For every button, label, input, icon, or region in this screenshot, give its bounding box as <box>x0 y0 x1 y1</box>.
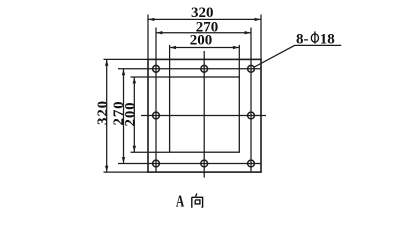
hole top-left <box>153 65 160 72</box>
dimension line 200 horizontal <box>170 47 240 49</box>
centerline middle row <box>141 115 266 117</box>
hole top-right <box>248 65 255 72</box>
dimension line 200 vertical <box>133 77 135 152</box>
dimension line 270 horizontal <box>156 32 251 34</box>
svg-text:200: 200 <box>123 102 139 127</box>
hole bottom-middle <box>201 160 208 167</box>
arrowhead 200v top <box>133 77 136 83</box>
hole middle-left <box>153 112 160 119</box>
svg-text:8-: 8- <box>296 31 309 47</box>
svg-text:200: 200 <box>190 32 213 48</box>
plate outline (320x320 square flange) <box>148 59 261 172</box>
extension line plate right (top dim 320) <box>260 15 262 60</box>
extension line inner-top (left dim 200) <box>131 76 170 78</box>
hole top-middle <box>201 65 208 72</box>
arrowhead 270v bottom <box>122 157 125 163</box>
centerline top hole row <box>118 68 261 70</box>
hole bottom-left <box>153 160 160 167</box>
centerline middle column <box>203 51 205 178</box>
arrowhead 270h left <box>156 31 162 34</box>
centerline left hole column <box>155 28 157 173</box>
phi symbol of callout <box>311 31 318 43</box>
hole middle-right <box>248 112 255 119</box>
arrowhead 320v bottom <box>105 166 108 172</box>
extension line inner-left (top dim 200) <box>169 45 171 77</box>
arrowhead 320h left <box>148 18 154 21</box>
extension line plate bottom (left dim 320) <box>104 171 149 173</box>
arrowhead 200v bottom <box>133 146 136 152</box>
extension line inner-right (top dim 200) <box>238 45 240 77</box>
dimension line 320 vertical <box>106 59 108 172</box>
arrowhead 270h right <box>245 31 251 34</box>
extension line inner-bottom (left dim 200) <box>131 151 170 153</box>
arrowhead 200h left <box>170 46 176 49</box>
dimension line 320 horizontal <box>148 18 261 20</box>
arrowhead 200h right <box>233 46 239 49</box>
svg-text:A: A <box>176 192 185 211</box>
view label A <box>176 192 185 211</box>
hole bottom-right <box>248 160 255 167</box>
extension line plate top (left dim 320) <box>104 58 149 60</box>
arrowhead 270v top <box>122 69 125 75</box>
centerline right hole column <box>250 28 252 173</box>
extension line plate left (top dim 320) <box>147 15 149 60</box>
svg-text:320: 320 <box>95 100 111 125</box>
arrowhead 320v top <box>105 60 108 66</box>
svg-text:18: 18 <box>320 31 335 47</box>
dimension line 270 vertical <box>123 69 125 164</box>
leader line to hole (8-phi18) <box>254 45 341 67</box>
centerline bottom hole row <box>118 163 261 165</box>
arrowhead 320h right <box>255 18 261 21</box>
view label Xiang (CJK) drawn as strokes <box>192 194 203 208</box>
inner square (200x200 boss) <box>170 77 240 152</box>
